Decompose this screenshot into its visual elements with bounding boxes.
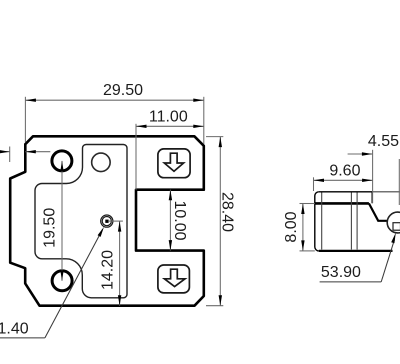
svg-text:4.55: 4.55 (368, 133, 399, 150)
svg-text:14.20: 14.20 (100, 250, 117, 290)
dimension 4.55 (348, 154, 400, 205)
svg-text:28.40: 28.40 (219, 192, 236, 232)
dimension 9.60 (314, 150, 373, 203)
dimension 19.50 (61, 161, 63, 281)
svg-text:9.60: 9.60 (329, 163, 360, 180)
tab dimension arrows (value off-image) (0, 147, 50, 163)
small circle top (92, 153, 111, 172)
side view far edge thin (372, 191, 400, 193)
dimension 28.40 (206, 137, 223, 306)
svg-text:19.50: 19.50 (42, 208, 59, 248)
hole top-left (52, 151, 72, 171)
side view pin circle (387, 212, 400, 233)
dimension 8.00 (300, 204, 315, 251)
dimension 11.00 (136, 124, 204, 190)
pin square (393, 223, 400, 231)
part outline front view (10, 136, 204, 305)
svg-text:8.00: 8.00 (283, 211, 300, 242)
svg-text:1.40: 1.40 (0, 321, 29, 338)
side view outline (315, 192, 393, 251)
svg-text:10.00: 10.00 (171, 200, 188, 240)
dimension 14.20 (109, 221, 123, 306)
svg-text:29.50: 29.50 (103, 82, 143, 99)
center hole 1.40 (101, 215, 113, 227)
icon top (down-arrow in rounded square) (158, 149, 190, 178)
svg-text:11.00: 11.00 (149, 109, 188, 126)
dimension 10.00 (169, 190, 171, 251)
dimension 29.50 (25, 97, 203, 144)
svg-text:53.90: 53.90 (321, 264, 361, 281)
side view inner edges (322, 193, 357, 250)
inner pocket outline (35, 145, 127, 298)
icon bottom (158, 265, 190, 293)
hole bottom-left (52, 271, 72, 291)
